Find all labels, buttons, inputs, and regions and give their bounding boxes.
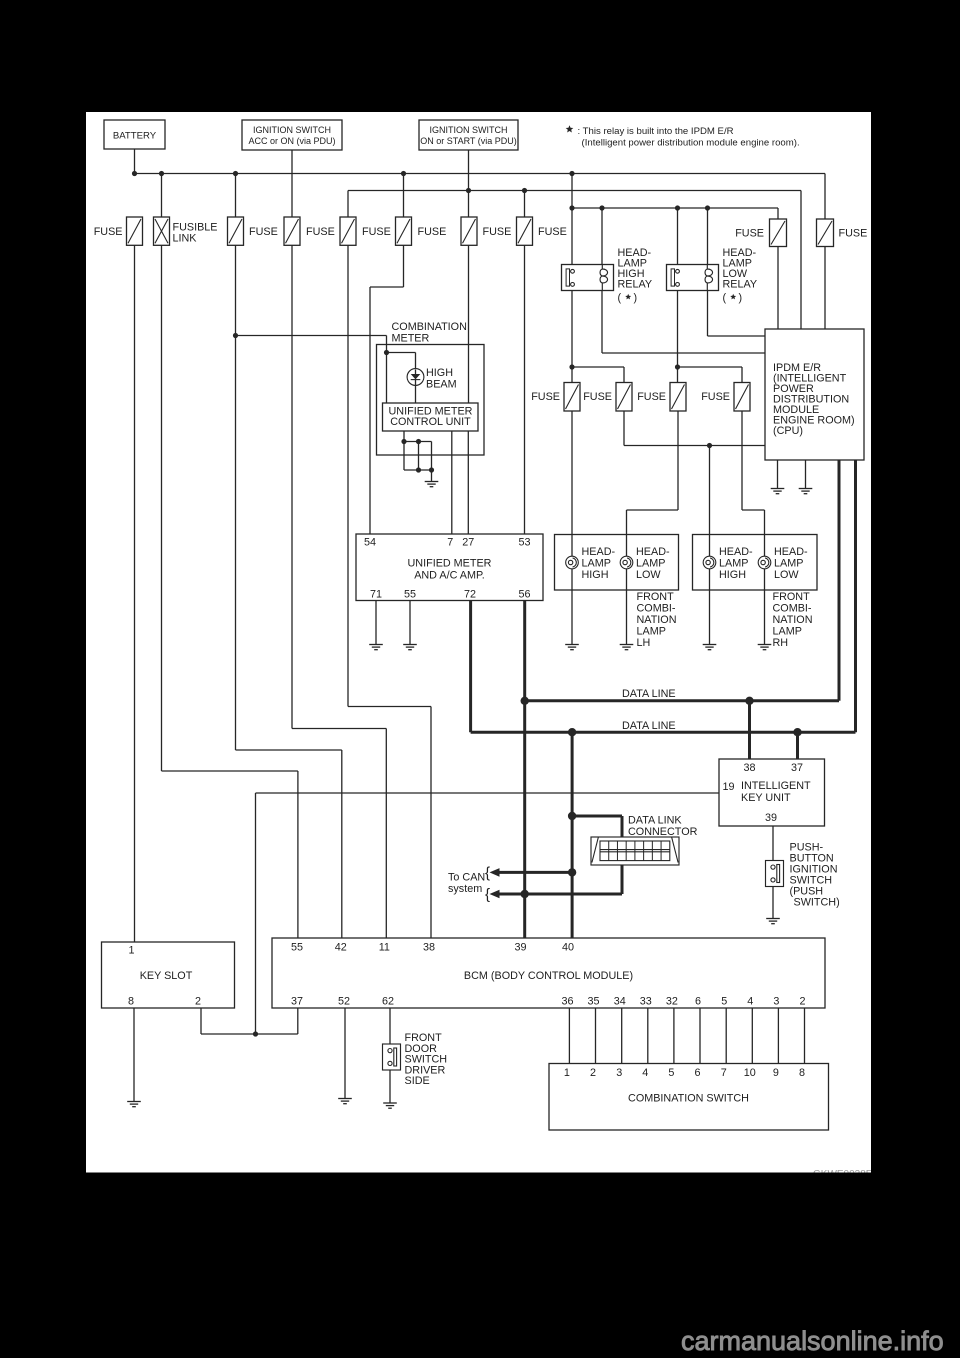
svg-text:{: { <box>485 886 490 903</box>
wire BCM to comb switch 10 <box>804 1008 806 1064</box>
svg-text:FUSE: FUSE <box>94 226 123 238</box>
wire fuse F4 to BCM11 <box>291 245 293 728</box>
thick junction dot <box>521 697 529 705</box>
wire fuse FB to IPDM <box>824 247 826 330</box>
thick junction dot <box>568 728 576 736</box>
ground IPDM 2 <box>799 488 813 490</box>
wire to RH high lamp <box>709 446 711 645</box>
svg-text:FUSE: FUSE <box>637 391 666 403</box>
svg-text:HEAD-: HEAD- <box>636 546 670 558</box>
svg-text:54: 54 <box>364 537 376 549</box>
headlamp high relay <box>562 265 614 291</box>
svg-text:KEY SLOT: KEY SLOT <box>140 970 193 982</box>
svg-text:COMBI-: COMBI- <box>773 603 812 615</box>
svg-text:2: 2 <box>590 1067 596 1079</box>
wire BCM to comb switch 8 <box>751 1008 753 1064</box>
svg-text:27: 27 <box>462 537 474 549</box>
svg-text:carmanualsonline.info: carmanualsonline.info <box>681 1326 944 1356</box>
svg-text:HEAD-: HEAD- <box>719 546 753 558</box>
svg-text:53: 53 <box>518 537 530 549</box>
wire BCM to comb switch 3 <box>621 1008 623 1064</box>
wire bus1 to bus3 vertical <box>571 174 573 265</box>
junction dot <box>599 205 604 210</box>
svg-text:BEAM: BEAM <box>426 379 457 391</box>
fuse FA <box>770 219 787 247</box>
thick junction dot <box>521 890 529 898</box>
svg-text:RELAY: RELAY <box>618 279 653 291</box>
junction dot <box>416 439 421 444</box>
junction dot <box>569 171 574 176</box>
wire IGN ACC drop <box>291 150 293 217</box>
front combination lamp LH box <box>555 535 679 591</box>
junction dot <box>416 467 421 472</box>
wire fusible link to BCM55 <box>161 245 163 771</box>
wire high relay contact out <box>571 291 573 383</box>
svg-text:19: 19 <box>723 781 735 793</box>
wire meter node to high beam <box>387 352 416 354</box>
wire fuse FA to IPDM <box>777 247 779 330</box>
svg-text:UNIFIED METER: UNIFIED METER <box>408 558 492 570</box>
wire high relay coil drop <box>601 208 603 265</box>
wire FM4 to RH low lamp <box>741 411 743 510</box>
svg-text:LOW: LOW <box>774 569 799 581</box>
battery box B1 <box>104 120 165 149</box>
svg-text:HIGH: HIGH <box>719 569 746 581</box>
junction dot <box>233 333 238 338</box>
svg-text:DATA LINE: DATA LINE <box>622 688 676 700</box>
lamp LH low <box>620 556 633 569</box>
svg-text:71: 71 <box>370 589 382 601</box>
wire high beam to UMCU <box>415 385 417 403</box>
svg-text:ON or START (via PDU): ON or START (via PDU) <box>420 136 517 146</box>
svg-text:{: { <box>485 865 490 882</box>
svg-text:40: 40 <box>562 942 574 954</box>
junction dot <box>132 171 137 176</box>
svg-text:KEY UNIT: KEY UNIT <box>741 792 791 804</box>
wire to fuse FM2 <box>572 366 624 368</box>
junction dot <box>569 205 574 210</box>
lamp RH low <box>758 556 771 569</box>
fuse FB <box>817 219 834 247</box>
svg-text:6: 6 <box>695 996 701 1008</box>
junction dot <box>384 350 389 355</box>
thick wire pin 72 down <box>469 601 472 733</box>
svg-text:4: 4 <box>642 1067 648 1079</box>
svg-text:COMBINATION: COMBINATION <box>392 321 467 333</box>
svg-text:62: 62 <box>382 996 394 1008</box>
svg-text:3: 3 <box>773 996 779 1008</box>
lamp LH high <box>566 556 579 569</box>
svg-text:LOW: LOW <box>636 569 661 581</box>
wire fuse F3 to meter <box>236 335 387 337</box>
wire fuse F6 drop <box>403 174 405 218</box>
svg-text:DATA LINK: DATA LINK <box>628 815 682 827</box>
wire fuse F5 to BCM38 <box>347 245 349 706</box>
ground lamp LH high <box>565 644 579 646</box>
svg-text:: This relay is built into the: : This relay is built into the IPDM E/R <box>578 126 734 137</box>
BCM box <box>272 938 825 1008</box>
svg-text:35: 35 <box>587 996 599 1008</box>
thick junction dot <box>793 728 801 736</box>
svg-text:32: 32 <box>666 996 678 1008</box>
ground lamp RH low <box>758 644 772 646</box>
svg-text:FUSE: FUSE <box>538 226 567 238</box>
svg-text:BCM (BODY CONTROL MODULE): BCM (BODY CONTROL MODULE) <box>464 970 633 982</box>
svg-text:NATION: NATION <box>637 614 677 626</box>
bus 3 horizontal <box>572 207 778 209</box>
fuse F1 <box>127 217 143 245</box>
junction dot <box>675 364 680 369</box>
front combination lamp RH box <box>693 535 818 591</box>
svg-text:38: 38 <box>743 762 755 774</box>
junction dot <box>401 171 406 176</box>
page code watermark <box>813 1169 873 1180</box>
ground push switch <box>766 918 780 920</box>
svg-text:(: ( <box>618 292 622 304</box>
svg-text:FUSE: FUSE <box>701 391 730 403</box>
fuse FM2 <box>616 383 632 412</box>
svg-text:5: 5 <box>668 1067 674 1079</box>
svg-text:FUSE: FUSE <box>418 226 447 238</box>
svg-text:(: ( <box>723 292 727 304</box>
svg-text:9: 9 <box>773 1067 779 1079</box>
svg-text:38: 38 <box>423 942 435 954</box>
svg-text:HIGH: HIGH <box>426 367 453 379</box>
svg-text:LAMP: LAMP <box>637 626 666 638</box>
wire door switch ground <box>389 1070 391 1103</box>
wire fuse F6 jog to pin 54 <box>403 245 405 287</box>
IPDM E/R box <box>765 329 864 460</box>
wire BCM pin 37 down <box>297 1008 299 1034</box>
thick junction dot <box>568 868 576 876</box>
svg-text:): ) <box>634 292 638 304</box>
svg-text:LH: LH <box>637 637 651 649</box>
svg-text:5: 5 <box>721 996 727 1008</box>
wire BCM to comb switch 4 <box>647 1008 649 1064</box>
ground lamp LH low <box>620 644 634 646</box>
svg-text:LINK: LINK <box>173 233 198 245</box>
wire IPDM ground stub 2 <box>805 460 807 488</box>
junction dot <box>675 205 680 210</box>
bus 1 horizontal <box>135 173 826 175</box>
svg-text:FUSE: FUSE <box>583 391 612 403</box>
svg-text:ACC or ON (via PDU): ACC or ON (via PDU) <box>248 136 335 146</box>
CAN arrow 2 <box>490 890 500 899</box>
svg-text:IGNITION SWITCH: IGNITION SWITCH <box>253 125 331 135</box>
svg-text:HIGH: HIGH <box>582 569 609 581</box>
junction dot <box>705 205 710 210</box>
junction dot <box>569 364 574 369</box>
thick wire to key unit 37 <box>796 732 799 759</box>
junction dot <box>466 188 471 193</box>
junction dot <box>429 467 434 472</box>
fusible link F2 <box>154 217 170 245</box>
junction dot <box>253 1031 258 1036</box>
ground UMCU <box>425 481 439 483</box>
ignition switch ACC box <box>242 120 342 150</box>
ground door switch <box>383 1102 397 1104</box>
svg-text:INTELLIGENT: INTELLIGENT <box>741 780 811 792</box>
junction dot <box>159 171 164 176</box>
wire bus2 to IPDM <box>800 191 802 330</box>
svg-text:RH: RH <box>773 637 789 649</box>
unified meter and A/C amp box <box>356 534 543 601</box>
wire battery to key slot <box>134 245 136 942</box>
fuse F3 <box>228 217 244 245</box>
wire FM2 to IPDM <box>623 411 625 446</box>
headlamp low relay <box>667 265 719 291</box>
svg-text:FUSE: FUSE <box>362 226 391 238</box>
thick wire DLC bottom branch <box>621 865 624 894</box>
fuse F4 <box>284 217 300 245</box>
wire BCM to comb switch 2 <box>595 1008 597 1064</box>
svg-text:72: 72 <box>464 589 476 601</box>
thick junction dot <box>745 697 753 705</box>
svg-text:AND A/C AMP.: AND A/C AMP. <box>414 570 485 582</box>
wire IPDM ground stub 1 <box>777 460 779 488</box>
wire fuse F8 drop <box>524 191 526 218</box>
svg-text:SWITCH): SWITCH) <box>794 897 840 909</box>
combination switch box <box>549 1064 829 1131</box>
svg-text:SIDE: SIDE <box>405 1075 430 1087</box>
thick wire to key unit 38 <box>748 701 751 759</box>
svg-text:system: system <box>448 883 482 895</box>
wire BCM 52 ground <box>344 1008 346 1098</box>
svg-text:LAMP: LAMP <box>773 626 802 638</box>
wire BCM to comb switch 5 <box>673 1008 675 1064</box>
svg-text:11: 11 <box>379 942 390 954</box>
svg-text:(Intelligent power distributio: (Intelligent power distribution module e… <box>582 138 800 149</box>
lamp RH high <box>703 556 716 569</box>
wire FM3 to LH low lamp <box>677 411 679 510</box>
wire bus2 left end to fuse F5 <box>347 191 349 218</box>
svg-text:42: 42 <box>335 942 347 954</box>
wire low relay coil to IPDM <box>707 291 709 337</box>
CAN arrow 1 <box>490 868 500 877</box>
svg-text:36: 36 <box>561 996 573 1008</box>
wire low relay coil drop <box>707 208 709 265</box>
junction dot <box>522 188 527 193</box>
unified meter control unit box <box>383 403 479 431</box>
wire meter node down <box>386 353 388 404</box>
svg-text:(CPU): (CPU) <box>773 425 803 437</box>
thick wire can branch down to BCM40 <box>571 732 574 938</box>
svg-text:8: 8 <box>799 1067 805 1079</box>
wire BCM to comb switch 7 <box>725 1008 727 1064</box>
wire high relay coil to IPDM <box>601 291 603 354</box>
svg-text:1: 1 <box>564 1067 570 1079</box>
ground IPDM 1 <box>771 488 785 490</box>
high beam indicator lamp <box>407 369 424 386</box>
wire bus3 to fuse FA <box>777 208 779 219</box>
wire to fuse FM4 <box>678 366 743 368</box>
svg-text:LAMP: LAMP <box>582 558 611 570</box>
svg-text:LAMP: LAMP <box>719 558 748 570</box>
junction dot <box>707 443 712 448</box>
wire UMCU ladder v3 <box>431 442 433 471</box>
wire low relay contact drop <box>677 208 679 265</box>
svg-text:LAMP: LAMP <box>774 558 803 570</box>
svg-text:4: 4 <box>747 996 753 1008</box>
fuse FM1 <box>564 383 580 412</box>
svg-text:NATION: NATION <box>773 614 813 626</box>
ground pin 55 <box>403 644 417 646</box>
svg-text:CONTROL UNIT: CONTROL UNIT <box>390 416 471 428</box>
data line 2 horizontal <box>471 731 856 734</box>
junction dot <box>233 171 238 176</box>
svg-text:CONNECTOR: CONNECTOR <box>628 826 698 838</box>
svg-text:56: 56 <box>518 589 530 601</box>
wire key slot pin 2 <box>200 1008 202 1034</box>
wire key slot pin 8 ground <box>133 1008 135 1101</box>
wire UMCU ladder h1 <box>404 441 432 443</box>
wire UMCU ground stub <box>431 470 433 481</box>
svg-text:METER: METER <box>392 333 430 345</box>
wire fuse F7 to pin 27 upper <box>468 245 470 403</box>
svg-text:COMBI-: COMBI- <box>637 603 676 615</box>
svg-text:FUSE: FUSE <box>531 391 560 403</box>
wire fuse F3 drop <box>235 174 237 218</box>
wire fusible link drop <box>161 174 163 218</box>
fuse FM3 <box>670 383 686 412</box>
wire pin 71 ground <box>375 601 377 645</box>
svg-text:55: 55 <box>404 589 416 601</box>
key slot box <box>102 942 235 1008</box>
svg-text:RELAY: RELAY <box>723 279 758 291</box>
svg-text:FUSE: FUSE <box>306 226 335 238</box>
ground lamp RH high <box>703 644 717 646</box>
ignition switch ON/START box <box>419 120 518 150</box>
wire BCM 62 to door switch <box>389 1008 391 1044</box>
wire FM1 to LH high lamp <box>571 411 573 644</box>
svg-text:39: 39 <box>765 812 777 824</box>
wire BCM to comb switch 6 <box>699 1008 701 1064</box>
fuse F6 <box>396 217 412 245</box>
fuse F5 <box>340 217 356 245</box>
svg-text:FRONT: FRONT <box>773 591 811 603</box>
svg-text:FUSE: FUSE <box>839 228 868 240</box>
fuse F7 <box>461 217 477 245</box>
junction dot <box>401 439 406 444</box>
bus 2 horizontal <box>348 190 801 192</box>
wire push switch to ground <box>772 887 774 919</box>
wire fuse F7 to pin 27 lower <box>467 431 469 534</box>
svg-text:HEAD-: HEAD- <box>582 546 616 558</box>
svg-text:IGNITION SWITCH: IGNITION SWITCH <box>430 125 508 135</box>
svg-text:1: 1 <box>128 945 134 957</box>
thick wire data line 1 to IPDM <box>838 460 841 701</box>
wire battery drop <box>134 149 136 174</box>
wire key unit pin 39 down <box>772 826 774 861</box>
svg-text:37: 37 <box>291 996 303 1008</box>
wire UMCU pin down 1 <box>403 431 405 470</box>
svg-text:7: 7 <box>447 537 453 549</box>
intelligent key unit box <box>719 759 825 826</box>
svg-text:FUSE: FUSE <box>249 226 278 238</box>
svg-text:2: 2 <box>195 996 201 1008</box>
fuse FM4 <box>734 383 750 412</box>
svg-text:3: 3 <box>616 1067 622 1079</box>
svg-text:52: 52 <box>338 996 350 1008</box>
svg-text:39: 39 <box>514 942 526 954</box>
note about relay <box>566 125 574 132</box>
thick wire to CAN arrow 1 <box>496 871 572 874</box>
wire IGN START drop <box>468 150 470 217</box>
wire low relay contact out <box>677 291 679 383</box>
svg-text:COMBINATION SWITCH: COMBINATION SWITCH <box>628 1093 749 1105</box>
svg-text:7: 7 <box>721 1067 727 1079</box>
svg-text:55: 55 <box>291 942 303 954</box>
white diagram page <box>86 112 871 1173</box>
svg-text:): ) <box>739 292 743 304</box>
push button ignition switch symbol <box>766 861 784 887</box>
svg-text:2: 2 <box>799 996 805 1008</box>
svg-text:FUSE: FUSE <box>735 228 764 240</box>
svg-text:To CAN: To CAN <box>448 872 485 884</box>
wire fuse F3 to BCM42 <box>235 245 237 750</box>
data link connector symbol <box>591 837 679 865</box>
front door switch symbol <box>383 1044 401 1070</box>
wire pin 55 ground <box>409 601 411 645</box>
fuse F8 <box>517 217 533 245</box>
combination meter box <box>377 345 485 456</box>
thick wire data line 2 to IPDM <box>854 460 857 732</box>
thick wire pin 56 down to BCM39 <box>523 601 526 939</box>
wire key unit pin 19 <box>256 792 720 794</box>
svg-text:DATA LINE: DATA LINE <box>622 720 676 732</box>
svg-text:37: 37 <box>791 762 803 774</box>
wire UMCU ladder v2 <box>418 442 420 471</box>
wire UMCU ladder h2 <box>404 469 432 471</box>
wire BCM to comb switch 9 <box>777 1008 779 1064</box>
wire BCM to comb switch 1 <box>568 1008 570 1064</box>
svg-text:HEAD-: HEAD- <box>774 546 808 558</box>
svg-text:BATTERY: BATTERY <box>113 131 157 142</box>
svg-text:33: 33 <box>640 996 652 1008</box>
wire bus1 to fuse FB <box>824 174 826 220</box>
data line 1 horizontal <box>525 699 839 702</box>
thick wire to DLC top <box>572 815 622 818</box>
wire fuse F8 to pin 53 <box>524 245 526 534</box>
ground pin 71 <box>369 644 383 646</box>
thick junction dot <box>568 812 576 820</box>
svg-text:10: 10 <box>744 1067 756 1079</box>
ground BCM 52 <box>338 1098 352 1100</box>
svg-text:FUSE: FUSE <box>483 226 512 238</box>
svg-text:8: 8 <box>128 996 134 1008</box>
svg-text:LAMP: LAMP <box>636 558 665 570</box>
svg-text:FRONT: FRONT <box>637 591 675 603</box>
wire UMCU pin7 down <box>451 431 453 534</box>
ground key slot <box>127 1101 141 1103</box>
svg-text:6: 6 <box>694 1067 700 1079</box>
svg-text:34: 34 <box>614 996 626 1008</box>
